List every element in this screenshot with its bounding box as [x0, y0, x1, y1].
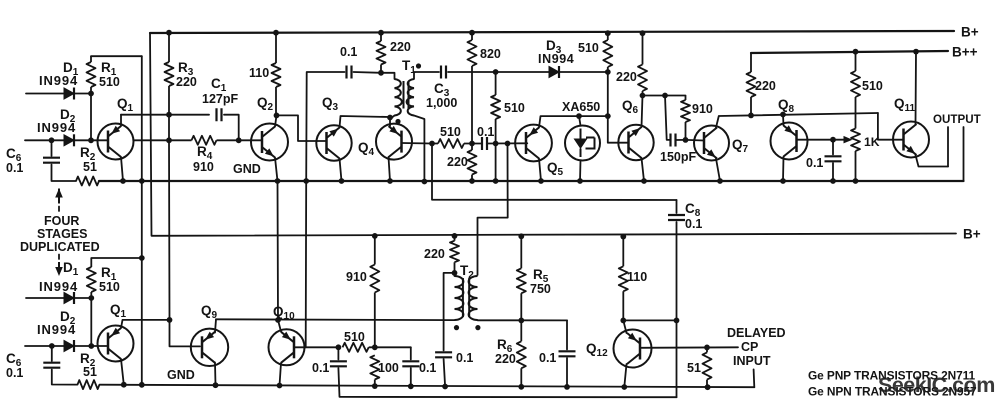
wire: Q11 emitter to OUTPUT terminal	[916, 155, 949, 167]
svg-text:220: 220	[176, 75, 197, 89]
wire: 0.1 (T2 node) bottom lead	[444, 359, 446, 387]
wire: C3 right to 510/D3 node	[448, 71, 496, 73]
junction: Q9 emitter / rail	[213, 382, 219, 388]
junction: 220 bottom / T1 node	[378, 70, 384, 76]
resistor 510 (C3 node)	[491, 72, 500, 144]
svg-text:0.1: 0.1	[539, 351, 556, 365]
potentiometer wiper arrow	[844, 136, 853, 144]
svg-text:510: 510	[344, 330, 365, 344]
svg-text:110: 110	[249, 66, 269, 80]
wire: OUTPUT terminal 1	[947, 127, 949, 167]
capacitor 0.1 (top, T1 node bypass)	[347, 66, 352, 79]
wire: R1 top over to bus	[91, 55, 142, 57]
svg-text:GND: GND	[233, 162, 261, 176]
wire: Q11 collector up to B++ rail	[915, 52, 918, 124]
capacitor 0.1 (Q5 coupling)	[482, 137, 487, 150]
wire: Q12 emitter to rail	[624, 364, 626, 387]
svg-text:INPUT: INPUT	[733, 354, 771, 368]
wire: to Q7 base	[686, 139, 705, 142]
wire: Q5 base node down to T2 secondary top	[478, 144, 508, 276]
svg-text:FOUR: FOUR	[44, 214, 79, 228]
svg-text:510: 510	[504, 101, 525, 115]
transistor Q6	[618, 125, 653, 160]
resistor 510 (B++ divider)	[851, 52, 860, 129]
svg-text:510: 510	[578, 41, 599, 55]
resistor 510 (Q10 base)	[343, 343, 375, 352]
resistor 820	[468, 33, 477, 144]
junction: T1/Q3/Q4 collector node	[387, 115, 393, 121]
wire: Q10 collector lead	[278, 320, 281, 332]
wire: Q12 collector node to C8 line	[623, 319, 676, 321]
transistor Q3	[316, 125, 351, 160]
svg-text:220: 220	[447, 155, 468, 169]
svg-text:220: 220	[755, 79, 776, 93]
wire: Q3 emitter down to ground rail	[340, 159, 342, 182]
junction: Q5 collector wire / Q6 base drop	[605, 113, 611, 119]
transformer T2 core	[463, 278, 469, 317]
wire: bottom ground rail	[100, 385, 755, 388]
junction: D2 wire / R1 vertical	[88, 137, 94, 143]
resistor R4 910	[169, 136, 239, 145]
wire: OUTPUT terminal 2 (ground)	[963, 127, 965, 181]
wire: Q12 base to CP input	[640, 346, 738, 349]
junction: Q8 base / 0.1 bypass	[830, 137, 836, 143]
wire: Q4 base feedback down and right to C8	[432, 144, 677, 201]
junction: 0.1 line / top ground rail	[303, 178, 309, 184]
diode D1 (top, IN994)	[64, 88, 74, 99]
wire: Q10 emitter to rail	[280, 363, 282, 386]
junction: Q6 emitter / ground rail	[641, 178, 647, 184]
junction: bottom D2 / C6	[49, 343, 55, 349]
resistor R2 51 (top, inline ground rail)	[76, 177, 99, 186]
wire: XA650 top lead	[579, 116, 581, 125]
resistor 220 (Q6 collector load)	[638, 33, 647, 95]
svg-text:GND: GND	[167, 368, 195, 382]
junction: R5 top / bottom B+ rail	[518, 233, 524, 239]
tunnel diode XA650	[565, 126, 600, 161]
wire: Q6 emitter down to ground rail	[642, 158, 645, 181]
wire: T1 secondary bottom down to ground rail	[414, 116, 424, 183]
wire: coupling line up to Q12 collector node	[676, 320, 678, 397]
wire: bottom C6 top lead	[51, 346, 53, 361]
junction: Q3 emitter / ground rail	[339, 178, 345, 184]
resistor 910 (bottom)	[370, 236, 379, 347]
svg-text:B++: B++	[952, 45, 978, 60]
wire: Q6 collector stub to 910	[643, 95, 686, 97]
junction: 220 top / B+ rail	[378, 30, 384, 36]
svg-text:CP: CP	[741, 340, 758, 354]
svg-text:0.1: 0.1	[340, 45, 357, 59]
wire: 150pF left drop	[665, 96, 670, 140]
resistor R1 510 (bottom)	[87, 258, 96, 298]
wire: 0.1 cap to Q5 base	[487, 142, 528, 144]
wire: upper input stub to D1	[26, 93, 64, 95]
wire: Q2 collector lead up	[275, 115, 277, 126]
junction: D2 wire / C6 tap	[49, 137, 55, 143]
junction: Q12 base / 51	[704, 345, 710, 351]
junction: 510 bottom / Q5 base wire	[493, 141, 499, 147]
svg-text:IN994: IN994	[39, 73, 78, 88]
wire: Q9/Q10 collector rail to T1 primary bottom	[216, 318, 455, 321]
resistor 110 (Q12 collector load)	[619, 237, 628, 321]
wire: Q4 collector lead	[389, 118, 391, 127]
junction: 220 bottom / T2 primary top	[452, 270, 458, 276]
wire: C6 bottom lead to ground rail	[52, 165, 77, 182]
wire: bottom C6 bottom lead to rail	[52, 370, 78, 385]
svg-text:100: 100	[378, 361, 399, 375]
wire: bottom R1 top to bus	[91, 257, 142, 259]
wire: D2 cathode to Q1 base	[74, 139, 108, 141]
svg-text:IN994: IN994	[37, 120, 76, 135]
wire: Q7 collector lead up and over to Q11 base corner	[716, 113, 878, 128]
transistor Q1 (bottom)	[98, 326, 134, 362]
transistor Q9	[191, 329, 228, 366]
junction: D1 wire / R1 bottom	[88, 91, 94, 97]
wire: bottom R1 node down to D2	[90, 298, 92, 346]
svg-text:B+: B+	[963, 227, 981, 242]
wire: Q8 base to potentiometer wiper	[797, 139, 846, 141]
wire: 510 node to 0.1 cap	[472, 143, 482, 145]
wire: top ground rail	[99, 180, 964, 182]
transistor Q7	[694, 126, 729, 161]
junction: 820 top / B+ rail	[469, 30, 475, 36]
resistor R3 220	[165, 33, 174, 115]
wire: Q1 base node over to R4	[134, 139, 170, 141]
resistor 220 (Q4 node to ground)	[468, 144, 477, 182]
capacitor C1 127pF	[217, 108, 222, 121]
junction: bus / bottom R1 top wire	[139, 255, 145, 261]
svg-text:IN994: IN994	[538, 52, 574, 66]
junction: 1K bottom / ground rail	[853, 178, 859, 184]
wire: bottom Q1 collector up and over	[121, 320, 170, 328]
resistor 220 (T2 primary feed, bottom)	[450, 236, 459, 273]
junction: T2 secondary / R5/R6	[518, 318, 524, 324]
diode D2 (bottom, IN994)	[64, 341, 74, 352]
svg-text:820: 820	[480, 47, 501, 61]
junction: 510 top / B+ rail	[605, 30, 611, 36]
wire: Q1 collector lead up to coupling wire	[120, 115, 122, 126]
svg-text:220: 220	[424, 247, 445, 261]
diode D2 (top, IN994)	[64, 135, 74, 146]
junction: 0.1 R5R6 / rail	[564, 384, 570, 390]
junction: 820/220/510 node	[469, 141, 475, 147]
junction: bus / top ground rail	[139, 178, 145, 184]
junction: Q5 emitter / ground rail	[538, 178, 544, 184]
capacitor C6 0.1 (bottom)	[43, 363, 60, 368]
wire: B++ rail	[751, 51, 948, 53]
svg-text:IN994: IN994	[39, 279, 78, 294]
wire: R1 bottom to D2 node	[90, 94, 92, 141]
annotation dash upper	[58, 207, 60, 212]
resistor 220 (T1 primary feed)	[377, 33, 386, 73]
junction: stub / 150pF drop	[662, 93, 668, 99]
junction: Q4 base / feedback drop	[429, 141, 435, 147]
capacitor 0.1 (R5/R6 node)	[559, 351, 576, 356]
wire: Q9 emitter to rail	[214, 363, 217, 386]
junction: XA650 / ground rail	[577, 178, 583, 184]
junction: Q5 base / T2 secondary feed	[505, 141, 511, 147]
diode D1 (bottom, IN994)	[64, 293, 74, 304]
wire: D1 cathode to R1 node	[74, 93, 91, 95]
junction: Q10 emitter / rail	[277, 383, 283, 389]
wire: Q2 collector to Q3 base	[277, 115, 327, 141]
junction: bottom Q1 collector / R3 line	[167, 317, 173, 323]
wire: Q9 collector up to collector rail	[215, 319, 216, 332]
wire: C1 to R4 right node	[224, 115, 239, 141]
junction: R3 bottom / Q1 collector wire	[166, 112, 172, 118]
wire: B+ rail down-feed to bottom section	[150, 33, 956, 236]
wire: Q12 collector lead	[623, 320, 626, 333]
junction: 220 top / bottom B+ rail	[452, 233, 458, 239]
wire: bottom input stub to D1	[26, 297, 64, 299]
junction: R3 line / R4 wire	[166, 137, 172, 143]
wire: D3 node down to Q6 base	[608, 72, 629, 143]
wire: T1 secondary top to C3	[414, 72, 439, 79]
wire: 0.1 (right) top lead	[410, 347, 412, 359]
junction: 110 bottom / Q12 collector	[620, 318, 626, 324]
svg-text:SeekIC.com: SeekIC.com	[878, 373, 995, 397]
resistor 100	[370, 355, 379, 386]
resistor R1 510 (top)	[87, 56, 96, 93]
wire: 0.1 (left) top lead	[337, 347, 339, 359]
svg-text:0.1: 0.1	[419, 361, 436, 375]
resistor 220 (B++ to Q7 collector)	[747, 53, 756, 115]
annotation dash lower	[58, 255, 60, 260]
junction: 0.1 right / rail	[408, 383, 414, 389]
junction: 510 line / ground rail	[493, 178, 499, 184]
transistor Q8	[771, 123, 808, 160]
wire: 150pF right to junction	[676, 139, 686, 141]
annotation arrow down	[58, 262, 60, 269]
capacitor C3 1,000	[441, 66, 446, 79]
transformer T1 core	[404, 81, 409, 109]
svg-text:127pF: 127pF	[202, 92, 238, 106]
diode D3 IN994	[549, 67, 559, 78]
wire: 0.1 (right) bottom lead	[410, 368, 412, 386]
wire: R4 to Q2 base	[239, 139, 262, 141]
svg-text:0.1: 0.1	[312, 361, 329, 375]
T2 phasing dot (primary)	[454, 325, 459, 330]
capacitor 0.1 (Q10 base left)	[330, 361, 347, 366]
wire: T2 primary top lead	[454, 273, 456, 276]
junction: 910/100/base node	[372, 344, 378, 350]
wire: base node right to 0.1 drop	[375, 346, 411, 348]
wire: 0.1 bypass bottom lead	[832, 163, 834, 181]
svg-text:910: 910	[692, 102, 713, 116]
wire: 0.1 (R5/R6) bottom lead	[566, 358, 568, 387]
junction: Q2 collector node	[274, 113, 280, 119]
transformer T2 secondary winding	[469, 276, 478, 320]
junction: bottom Q1 emitter / rail	[121, 382, 127, 388]
svg-text:750: 750	[530, 282, 551, 296]
junction: 110 top / B+ rail	[273, 30, 279, 36]
junction: 910 bottom / 150pF / Q7 base	[683, 137, 689, 143]
wire: XA650 bottom lead to ground rail	[579, 161, 582, 182]
resistor R6 220	[517, 320, 526, 386]
wire: C8 bottom lead down to Q12 collector node	[676, 222, 678, 320]
wire: Q4 base to 510	[402, 142, 433, 145]
transistor Q1 (top)	[98, 124, 134, 160]
resistor 510 (D3 node to B+)	[603, 33, 612, 72]
junction: 220 top / B+ rail	[640, 30, 646, 36]
svg-text:0.1: 0.1	[456, 351, 473, 365]
junction: R4 / C1 branch	[236, 137, 242, 143]
capacitor 0.1 (T2 node)	[435, 352, 452, 357]
junction: Q8 emitter / ground rail	[780, 178, 786, 184]
svg-text:51: 51	[83, 160, 97, 174]
svg-text:IN994: IN994	[37, 322, 76, 337]
transformer T1 secondary winding	[407, 79, 414, 116]
junction: Q1 emitter / ground rail	[120, 178, 126, 184]
junction: 0.1 T2 node / rail	[442, 384, 448, 390]
svg-text:0.1: 0.1	[6, 366, 23, 380]
junction: T1 secondary bottom / ground rail	[422, 179, 428, 185]
junction: 100 bottom / rail	[372, 383, 378, 389]
T2 phasing dot (secondary)	[475, 325, 480, 330]
junction: Q6 collector / 910 stub	[640, 93, 646, 99]
svg-text:510: 510	[99, 75, 120, 89]
wire: corner down to Q11 base	[878, 113, 904, 140]
resistor 910 (Q7 base)	[681, 96, 690, 140]
wire: B+ top rail	[150, 31, 954, 33]
svg-text:0.1: 0.1	[6, 161, 23, 175]
transistor Q12	[614, 330, 652, 368]
junction: 510 top / B++ rail	[853, 49, 859, 55]
junction: Q7 emitter / ground rail	[717, 178, 723, 184]
junction: Q2 emitter / ground rail	[275, 178, 281, 184]
transformer T2 primary winding	[455, 276, 464, 320]
wire: Q5 emitter down to ground rail	[539, 159, 541, 182]
resistor 110 (Q2 collector load)	[272, 33, 281, 116]
svg-text:910: 910	[346, 270, 367, 284]
junction: 110 top / bottom B+ rail	[620, 234, 626, 240]
svg-text:1,000: 1,000	[426, 96, 457, 110]
svg-text:DUPLICATED: DUPLICATED	[20, 240, 100, 254]
wire: node to D3	[496, 71, 549, 73]
wire: bottom D2 cathode to Q1 base	[74, 345, 108, 347]
junction: 220 bottom / Q7 collector wire	[748, 113, 754, 119]
wire: Q4 emitter down to ground rail	[389, 157, 391, 181]
wire: T1 primary bottom to Q4 collector node	[390, 116, 395, 120]
wire: T2 node left to 0.1	[444, 273, 455, 351]
capacitor 150pF	[671, 134, 676, 147]
wire: lower input stub to D2	[25, 139, 64, 141]
junction: 910 top / bottom B+ rail	[372, 233, 378, 239]
transistor Q4	[376, 124, 412, 160]
wire: Q5 collector lead up and over to XA650 node	[539, 116, 608, 127]
svg-text:XA650: XA650	[562, 100, 600, 114]
svg-text:510: 510	[99, 280, 120, 294]
svg-text:0.1: 0.1	[806, 156, 823, 170]
capacitor 0.1 (Q8 base bypass)	[825, 156, 842, 161]
junction: bottom D1 / R1	[88, 295, 94, 301]
svg-text:DELAYED: DELAYED	[727, 326, 786, 340]
svg-text:51: 51	[687, 361, 701, 375]
svg-text:220: 220	[390, 40, 411, 54]
junction: R6 bottom / rail	[518, 384, 524, 390]
svg-text:OUTPUT: OUTPUT	[933, 113, 981, 126]
T1 phasing dot (primary bottom)	[395, 119, 400, 124]
svg-text:0.1: 0.1	[685, 217, 702, 231]
transistor Q10	[269, 329, 305, 365]
junction: bus / bottom ground rail	[139, 382, 145, 388]
wire: C8 top lead	[676, 200, 678, 213]
junction: 0.1 bypass / ground rail	[830, 178, 836, 184]
svg-text:510: 510	[862, 79, 883, 93]
junction: Q11 collector / B++ rail	[913, 49, 919, 55]
wire: Q7 emitter down to ground rail	[716, 159, 720, 182]
wire: vertical bus from R1 top down to bottom ground rail	[141, 56, 143, 385]
transistor Q2	[251, 124, 288, 161]
wire: Q10 base wire right	[294, 346, 338, 348]
junction: Q10 collector / rail / Q2 emitter line	[275, 317, 281, 323]
svg-text:910: 910	[193, 160, 214, 174]
junction: XA650 top / Q5 collector wire	[576, 113, 582, 119]
wire: bottom input stub to D2	[25, 345, 64, 347]
wire: Q2 emitter down to ground rail and on to Q10 collector	[275, 158, 278, 321]
svg-text:220: 220	[616, 70, 637, 84]
svg-text:110: 110	[627, 270, 647, 284]
wire: Q1 collector to C1	[121, 114, 209, 116]
wire: 0.1 (left) bottom lead crossing rail to coupling line	[338, 368, 676, 397]
wire: 0.1 cap left lead / vertical to ground and bottom Q10 base	[306, 72, 345, 347]
wire: C6 top lead	[51, 140, 53, 156]
wire: input ground terminal stub	[753, 369, 756, 387]
junction: Q12 emitter / rail	[621, 384, 627, 390]
wire: Q6 collector lead up to 220	[642, 96, 643, 128]
wire: Q8 collector lead up to Q7 collector wire	[782, 115, 785, 126]
svg-text:51: 51	[83, 365, 97, 379]
junction: 510 bottom / D3 wire	[605, 69, 611, 75]
transistor Q11	[893, 122, 929, 158]
svg-text:150pF: 150pF	[660, 150, 696, 164]
junction: 51 bottom / rail	[705, 384, 711, 390]
svg-text:B+: B+	[961, 25, 979, 40]
resistor R2 51 (bottom, inline rail)	[78, 380, 100, 389]
junction: C8 line / Q12 collector wire	[674, 318, 680, 324]
svg-text:510: 510	[440, 125, 461, 139]
resistor R5 750	[517, 236, 526, 320]
wire: Q1 emitter lead down to ground rail	[121, 157, 123, 181]
wire: bottom D1 cathode to R1	[74, 297, 91, 299]
wire: D3 cathode to 510 node	[559, 71, 608, 73]
svg-text:STAGES: STAGES	[37, 227, 87, 241]
junction: Q8 collector / wire	[780, 112, 786, 118]
capacitor C6 0.1 (top)	[43, 158, 60, 163]
wire: 0.1 cap right to 220/T1 node	[354, 72, 395, 79]
svg-text:0.1: 0.1	[477, 125, 494, 139]
wire: R5/R6 node corner down	[566, 320, 568, 349]
transistor Q5	[515, 125, 552, 162]
capacitor 0.1 (Q10 base right)	[402, 361, 419, 366]
junction: R3 top / B+ rail	[166, 30, 172, 36]
svg-text:220: 220	[495, 352, 516, 366]
junction: Q4 emitter / ground rail	[387, 178, 393, 184]
junction: C3 / 510 resistor / D3 wire	[493, 69, 499, 75]
resistor 510 (Q4 base)	[432, 139, 472, 148]
T1 phasing dot (secondary top)	[416, 63, 421, 68]
junction: 220 bottom / ground rail	[469, 178, 475, 184]
capacitor C8 0.1	[668, 215, 685, 220]
junction: Q10 base / 0.1 coupling	[336, 344, 342, 350]
junction: bottom D2 / R1 line	[88, 343, 94, 349]
wire: Q8 emitter down to ground rail	[782, 157, 785, 182]
wire: R3 node vertical down to bottom section	[169, 115, 200, 347]
wire: Q3 collector lead up and over to T1/Q4 node	[340, 116, 391, 128]
annotation arrow up (four stages duplicated)	[55, 189, 63, 198]
potentiometer 1K	[851, 129, 860, 182]
wire: bottom Q1 emitter to rail	[121, 359, 124, 385]
